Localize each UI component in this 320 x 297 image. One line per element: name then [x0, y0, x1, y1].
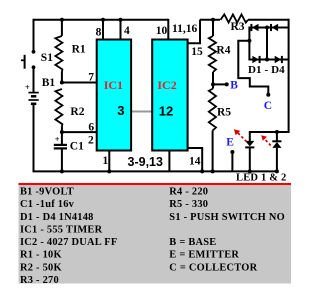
wire diode bridge left vertical [248, 27, 250, 61]
diode D2 (top-right, pointing left) [271, 24, 278, 31]
svg-text:E: E [226, 136, 234, 148]
node R5 bottom rail [211, 169, 215, 173]
node diode mid bottom [265, 58, 269, 62]
svg-text:3: 3 [117, 103, 124, 118]
svg-text:R5: R5 [217, 106, 231, 118]
svg-text:B1 -9VOLT: B1 -9VOLT [20, 187, 74, 198]
svg-text:+: + [55, 134, 60, 144]
svg-text:B = BASE: B = BASE [169, 237, 216, 248]
svg-text:D1 - D4 1N4148: D1 - D4 1N4148 [20, 212, 94, 223]
resistor R4 [209, 36, 216, 72]
svg-text:R1 - 10K: R1 - 10K [20, 250, 62, 261]
node B terminal dot [225, 82, 229, 86]
capacitor C1 [54, 145, 67, 149]
legend right column [169, 187, 285, 274]
node diode mid top [265, 26, 269, 30]
diode D1 (top-left, pointing left) [251, 24, 258, 31]
svg-text:1: 1 [103, 155, 109, 167]
wire battery negative to bottom rail [33, 104, 35, 171]
battery B1 plates [29, 93, 39, 104]
wire top rail right segment to R3 [200, 19, 220, 21]
wire IC2 pin 14 [187, 148, 202, 171]
svg-text:R3: R3 [231, 21, 245, 33]
node R4 top on rail [211, 18, 215, 22]
svg-text:2: 2 [88, 134, 94, 146]
svg-text:12: 12 [159, 104, 173, 119]
svg-text:10: 10 [156, 25, 168, 37]
svg-text:LED 1 & 2: LED 1 & 2 [236, 173, 287, 184]
svg-text:D1 - D4: D1 - D4 [248, 64, 285, 76]
node pin1 bottom rail [107, 169, 111, 173]
svg-text:R2: R2 [70, 106, 84, 118]
node collector/diode junction [247, 39, 251, 43]
wire diode bridge bottom row [249, 59, 288, 61]
resistor R3 [221, 14, 249, 22]
wire IC1 pin 7 [62, 82, 97, 84]
legend left column [20, 187, 117, 286]
svg-text:R3 - 270: R3 - 270 [20, 275, 59, 286]
wire LED2 bottom lead [276, 148, 278, 171]
svg-text:S1 - PUSH SWITCH NO: S1 - PUSH SWITCH NO [169, 212, 285, 223]
wire top rail left segment [34, 19, 169, 21]
LED 1 (cathode down) [245, 141, 254, 148]
svg-text:7: 7 [88, 71, 94, 83]
op-amp IC1 555 timer body [97, 40, 131, 151]
wire left vertical to switch [33, 19, 35, 51]
wire R5 bottom lead [212, 131, 214, 172]
svg-text:6: 6 [88, 122, 94, 134]
diode D3 (bottom-left, pointing right) [252, 56, 259, 63]
wire IC1 pin 8 stub [102, 19, 104, 40]
LED1 emission arrow [234, 129, 247, 142]
wire IC2 pin 15 [187, 20, 201, 44]
svg-text:B1: B1 [42, 77, 56, 89]
node pin8 on rail [101, 18, 105, 22]
legend gray panel [19, 185, 292, 283]
node LED2 bottom rail [275, 169, 279, 173]
wire LED2 top lead [276, 132, 278, 141]
wire right rail down to LEDs [250, 19, 289, 132]
node B junction [211, 82, 215, 86]
op-amp IC2 4027 body [152, 40, 187, 151]
wire R1 bottom lead to node [61, 72, 63, 83]
wire C1 top lead [61, 132, 63, 144]
node C1 bottom rail [60, 169, 64, 173]
svg-text:C1: C1 [70, 141, 84, 153]
node LED1 bottom rail [248, 169, 252, 173]
wire R3 to right corner [248, 19, 289, 21]
wire C1 bottom lead [61, 149, 63, 172]
resistor R1 [55, 36, 62, 72]
resistor R5 [209, 89, 216, 131]
svg-text:R1: R1 [72, 44, 86, 56]
wire diode bridge middle vertical [266, 28, 268, 60]
resistor R2 [55, 89, 62, 127]
wire node B stub [213, 83, 226, 85]
wire IC1 pin 4 stub [120, 19, 122, 40]
node E terminal [230, 150, 234, 154]
svg-text:3-9,13: 3-9,13 [128, 155, 163, 169]
node pin14 bottom rail [200, 169, 204, 173]
svg-text:C1 -1uf 16v: C1 -1uf 16v [20, 199, 75, 210]
svg-text:IC1: IC1 [104, 78, 123, 92]
wire emitter terminal [231, 152, 233, 171]
wire R5 top lead [212, 84, 214, 88]
wire IC1 pin 1 stub [108, 151, 110, 172]
svg-text:IC2 - 4027 DUAL FF: IC2 - 4027 DUAL FF [20, 237, 117, 248]
wire collector staircase [238, 41, 268, 95]
node R1 top on rail [60, 18, 64, 22]
wire R1 top lead [61, 20, 63, 36]
node LED2 top [275, 130, 279, 134]
svg-text:4: 4 [124, 25, 130, 37]
wire bottom rail [33, 170, 278, 172]
svg-text:14: 14 [189, 155, 201, 167]
node pin4 on rail [119, 18, 123, 22]
wire LED1 top lead [249, 131, 251, 141]
svg-text:11,16: 11,16 [172, 23, 197, 35]
svg-text:R4 - 220: R4 - 220 [169, 187, 208, 198]
svg-text:S1: S1 [41, 52, 53, 64]
wire gray link IC1 pin3 to IC2 pin12 [131, 111, 153, 113]
svg-text:R2 - 50K: R2 - 50K [20, 262, 62, 273]
svg-text:R4: R4 [216, 45, 230, 57]
wire R4 top lead [212, 20, 214, 36]
svg-text:IC2: IC2 [157, 78, 176, 92]
svg-text:8: 8 [96, 26, 102, 38]
wire IC2 pin 10/11/16 stub [167, 19, 169, 40]
svg-text:E = EMITTER: E = EMITTER [169, 250, 239, 261]
wire R4 bottom lead to node B [212, 72, 214, 84]
wire IC2 pins 3-9,13 stub [168, 151, 170, 172]
svg-text:15: 15 [191, 46, 203, 58]
svg-text:IC1 - 555 TIMER: IC1 - 555 TIMER [20, 224, 103, 235]
red separator line [19, 183, 292, 185]
svg-text:C = COLLECTOR: C = COLLECTOR [169, 262, 257, 273]
node R1/R2 pin7 [60, 81, 64, 85]
node dots [60, 18, 279, 174]
svg-text:+: + [25, 82, 30, 92]
wire IC1 pins 6,2 [62, 131, 97, 133]
diode D4 (bottom-right, pointing right) [275, 56, 282, 63]
wire R2 bottom lead [61, 127, 63, 133]
switch S1 [21, 50, 36, 69]
wire LED1 bottom lead [249, 148, 251, 172]
svg-text:C: C [264, 100, 272, 112]
wire diode bridge top row [249, 27, 288, 29]
node C terminal [266, 93, 270, 97]
LED2 emission arrow [261, 135, 271, 145]
wire switch to battery [33, 67, 35, 92]
LED 2 (cathode up) [272, 141, 281, 148]
svg-text:B: B [230, 80, 238, 92]
node R2/C1 pin6 [60, 130, 64, 134]
svg-text:R5 - 330: R5 - 330 [169, 199, 208, 210]
